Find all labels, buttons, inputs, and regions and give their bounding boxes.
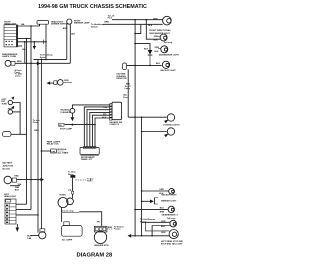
- license lamp 1: [167, 114, 174, 121]
- wire to washer motor: [79, 212, 102, 227]
- node left vertical b: [30, 63, 32, 65]
- battery feed wire: [17, 179, 41, 181]
- ground arrow below box: [16, 224, 18, 228]
- lamp left turn: [8, 110, 12, 114]
- V4 right bus short: [146, 20, 160, 40]
- svg-text:14A: 14A: [21, 23, 25, 26]
- svg-text:PN: PN: [97, 221, 100, 223]
- drop from grid text to stop upper: [145, 222, 169, 231]
- svg-text:RESISTOR: RESISTOR: [117, 78, 128, 80]
- jog from second wire into V3: [135, 24, 141, 33]
- svg-text:SIDE MARKER LIGHT: SIDE MARKER LIGHT: [149, 32, 170, 35]
- svg-text:BLK: BLK: [154, 39, 159, 41]
- arrow to headlight switch (down): [33, 46, 36, 50]
- turn signal switch connector: [110, 102, 122, 120]
- svg-text:MARKER LAMP: MARKER LAMP: [74, 22, 90, 25]
- svg-text:LICENSE LIGHTS: LICENSE LIGHTS: [163, 124, 180, 126]
- DRL box: [51, 149, 57, 153]
- svg-text:BRN: BRN: [17, 61, 22, 63]
- V3 right bus: [134, 20, 136, 236]
- svg-text:BACKUP LIGHT: BACKUP LIGHT: [161, 69, 177, 72]
- svg-text:Lamp: Lamp: [125, 88, 131, 90]
- svg-text:50A: 50A: [18, 183, 22, 186]
- lamp: right marker lamp: [67, 19, 72, 24]
- front directional lamp (dual filament): [163, 16, 172, 25]
- svg-text:14A: 14A: [22, 48, 26, 51]
- svg-text:BRN: BRN: [63, 28, 68, 30]
- svg-text:BLK: BLK: [102, 117, 107, 119]
- svg-text:DIMMER SWITCH: DIMMER SWITCH: [51, 24, 69, 26]
- sidemarker lamp rear: [135, 208, 168, 210]
- wire headlight feed c: [18, 38, 31, 40]
- tail lamp rear: [142, 221, 170, 223]
- left bus vertical a: [26, 39, 28, 205]
- connector wires to junction pins: [84, 107, 110, 147]
- svg-text:DIAGRAM 28: DIAGRAM 28: [77, 253, 114, 259]
- svg-text:GRN: GRN: [161, 232, 166, 234]
- svg-text:BLK: BLK: [161, 226, 166, 228]
- node at x31 bus top: [30, 25, 32, 27]
- diode 2 (marker light diode): [142, 200, 150, 202]
- svg-text:BACKUP LIGHT: BACKUP LIGHT: [162, 194, 178, 197]
- branch to sidemarker diode: [135, 44, 150, 50]
- svg-text:BLOCK: BLOCK: [3, 169, 11, 171]
- svg-text:PANEL JCT: PANEL JCT: [81, 158, 93, 161]
- svg-text:BRN: BRN: [108, 227, 113, 229]
- svg-text:2B: 2B: [59, 125, 62, 127]
- svg-text:A/C CMPR: A/C CMPR: [62, 239, 73, 242]
- arrow right on wire: [37, 62, 41, 65]
- left bus vertical c: [37, 59, 39, 232]
- svg-text:MARKER LIGHT: MARKER LIGHT: [161, 199, 177, 202]
- svg-text:BLK: BLK: [155, 51, 160, 53]
- svg-text:WASHER MTR: WASHER MTR: [94, 244, 109, 247]
- svg-text:FLASHER: FLASHER: [61, 111, 71, 114]
- second battery wire: [10, 185, 20, 187]
- node dimmer leg: [45, 59, 47, 61]
- resistor output wire to backup lamp: [127, 64, 162, 66]
- svg-text:GRN: GRN: [159, 189, 164, 191]
- svg-text:BRN: BRN: [34, 130, 39, 132]
- svg-text:RED: RED: [14, 175, 19, 177]
- svg-text:JUNCTION: JUNCTION: [3, 166, 14, 168]
- svg-text:FRONT DIRECTIONAL/: FRONT DIRECTIONAL/: [149, 29, 171, 32]
- svg-text:LAMPS CONN: LAMPS CONN: [2, 55, 16, 58]
- left bus vertical d: [40, 59, 42, 228]
- connector C100 (top-left connector box): [4, 25, 17, 47]
- wire park feed to marker lamp: [34, 58, 67, 60]
- battery connector circle: [4, 176, 12, 184]
- svg-text:HEADLIGHT: HEADLIGHT: [4, 195, 17, 198]
- svg-text:1994-98 GM TRUCK CHASSIS SCHEM: 1994-98 GM TRUCK CHASSIS SCHEMATIC: [38, 4, 147, 10]
- lamp left park: [8, 100, 12, 104]
- svg-text:HORN: HORN: [60, 194, 67, 196]
- svg-text:GRN: GRN: [153, 18, 158, 20]
- svg-text:GRN: GRN: [64, 80, 69, 82]
- svg-text:Lamp: Lamp: [15, 76, 21, 78]
- svg-text:RELAY COIL: RELAY COIL: [47, 143, 60, 146]
- svg-text:SIDEMARKER LT: SIDEMARKER LT: [162, 214, 179, 217]
- svg-text:BRN: BRN: [160, 211, 165, 213]
- svg-text:Switch: Switch: [91, 25, 98, 28]
- svg-text:STOP LAMP: STOP LAMP: [60, 127, 73, 130]
- wire marker lamp lead 1: [66, 23, 68, 59]
- svg-text:Floor: Floor: [123, 97, 128, 99]
- backup lamp lower: [142, 190, 169, 192]
- connector circle C150: [5, 60, 11, 66]
- backup lamp upper: [162, 61, 169, 68]
- wire headlight hi-beam: [18, 24, 40, 26]
- svg-text:SIDEMARKER LIGHT: SIDEMARKER LIGHT: [159, 54, 180, 57]
- svg-text:Tail lamp: Tail lamp: [164, 42, 173, 44]
- svg-text:Panel: Panel: [33, 122, 39, 124]
- svg-text:TURN: TURN: [2, 104, 8, 106]
- svg-text:STOP AND TAIL LIGHT: STOP AND TAIL LIGHT: [161, 243, 183, 246]
- svg-text:14A: 14A: [71, 33, 75, 36]
- license lamp 2: [142, 131, 167, 133]
- svg-text:Switch: Switch: [40, 56, 47, 59]
- wire branch to arrow: [33, 42, 35, 46]
- license lights feed: [128, 116, 167, 118]
- left headlight connector box: [5, 199, 16, 224]
- wire lamps to bus: [13, 103, 27, 135]
- svg-text:BLK: BLK: [160, 207, 165, 209]
- svg-text:DRL: DRL: [51, 151, 56, 153]
- svg-text:BRN: BRN: [104, 22, 109, 24]
- plug connector bottom-left: [40, 229, 45, 232]
- connector C2 circle mid: [47, 81, 51, 84]
- second feed wire: [103, 23, 163, 25]
- V4b lower right bus: [141, 117, 143, 236]
- wire from connector: [15, 62, 70, 64]
- hazard flasher circle: [70, 108, 75, 113]
- svg-text:BLK: BLK: [148, 25, 153, 27]
- svg-text:Tail lamp: Tail lamp: [167, 218, 176, 220]
- A/C compressor box: [61, 208, 63, 213]
- left bus vertical b: [30, 26, 32, 210]
- svg-text:BLK: BLK: [156, 63, 161, 65]
- svg-text:BATTERY: BATTERY: [3, 162, 13, 165]
- svg-text:Panel: Panel: [87, 181, 93, 183]
- wire ground stub: [18, 45, 22, 47]
- svg-text:Pumps: Pumps: [114, 229, 122, 231]
- svg-text:ALL TIMES: ALL TIMES: [57, 152, 69, 155]
- arrow from flasher down: [71, 117, 75, 121]
- park feed wire right: [112, 19, 163, 21]
- small cap connector bottom-left: [3, 132, 12, 137]
- svg-text:14B: 14B: [27, 237, 31, 240]
- diode symbol (pointing down): [148, 50, 153, 55]
- instrument panel junction block: [80, 147, 99, 154]
- wire marker lamp lead 2: [69, 24, 71, 63]
- node left vertical a: [26, 63, 28, 65]
- headlight dimmer switch (capsule): [37, 21, 49, 60]
- svg-text:MODULE: MODULE: [57, 149, 67, 151]
- node at dimmer leg: [45, 41, 47, 43]
- stop feed wire: [65, 124, 96, 126]
- daytime running light resistor: [122, 63, 126, 70]
- wires from left headlight box: [16, 203, 27, 205]
- svg-text:GRN: GRN: [161, 221, 166, 223]
- wire headlight low-beam: [18, 41, 46, 43]
- svg-text:PNK: PNK: [103, 107, 108, 109]
- resistor drop wire: [127, 69, 129, 117]
- svg-text:BLK: BLK: [15, 189, 20, 191]
- svg-text:CONN C2: CONN C2: [110, 124, 120, 126]
- node on low-beam wire: [34, 41, 36, 43]
- washer motor: [94, 226, 107, 243]
